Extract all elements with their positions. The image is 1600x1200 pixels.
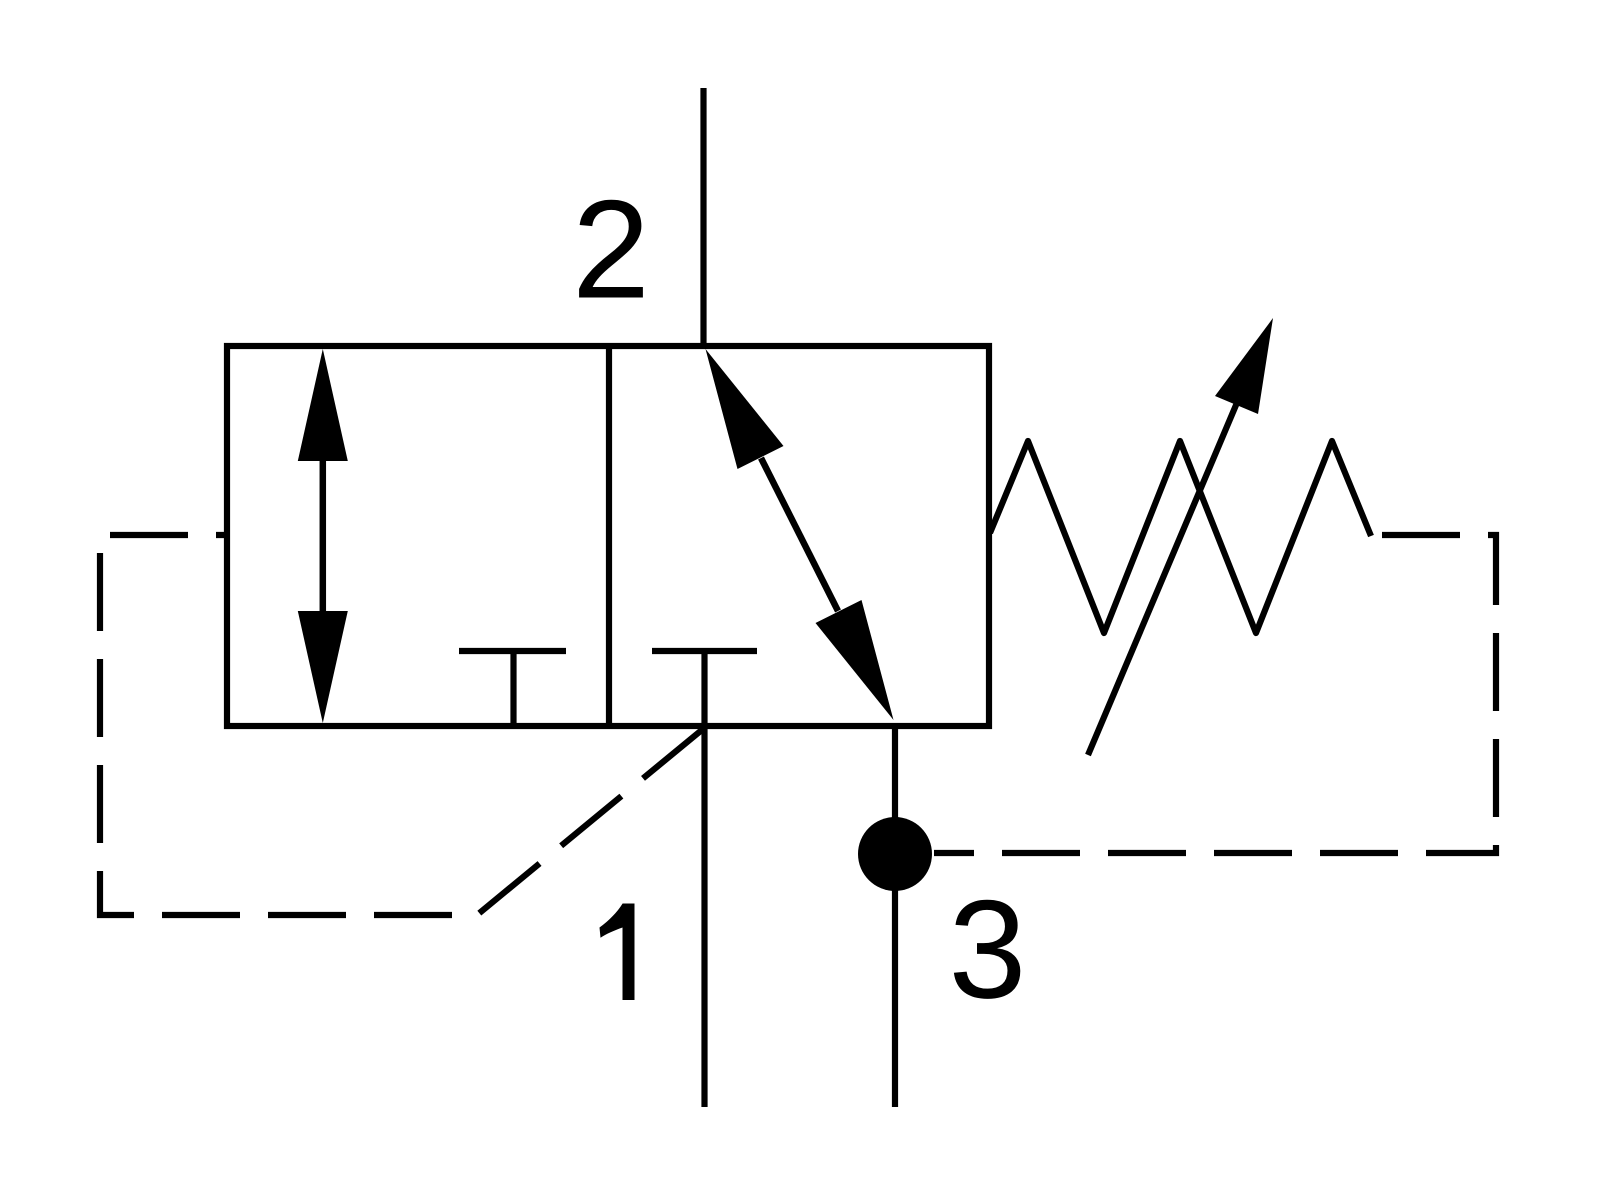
svg-text:2: 2	[572, 171, 650, 328]
right seat T bar	[652, 648, 757, 654]
spring zigzag	[990, 441, 1371, 633]
left seat T bar	[459, 648, 566, 654]
junction node	[858, 817, 932, 891]
valve body divider	[606, 346, 612, 726]
port 1 line	[701, 651, 707, 1107]
diagonal arrow top head	[706, 349, 784, 469]
port 2 line	[700, 88, 706, 349]
left seat T stem	[510, 651, 516, 726]
adjustment arrow head	[1215, 318, 1273, 414]
valve body outline	[227, 346, 989, 726]
right cell diagonal arrow shaft	[761, 458, 838, 611]
port 3 line	[892, 726, 898, 1107]
svg-text:3: 3	[949, 871, 1027, 1028]
diagonal arrow bottom head	[816, 600, 894, 720]
pilot line right dashed	[934, 535, 1496, 853]
pilot line left dashed	[100, 535, 703, 915]
left arrow bottom head	[298, 611, 348, 723]
left cell double arrow shaft	[320, 455, 327, 617]
label 1	[600, 904, 635, 1001]
left arrow top head	[298, 349, 348, 461]
adjustment arrow shaft	[1088, 372, 1250, 755]
